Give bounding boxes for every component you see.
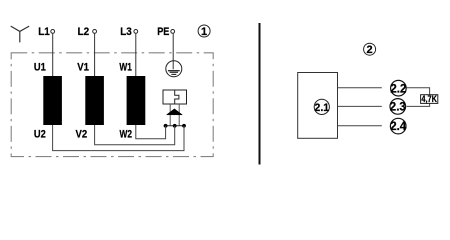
svg-text:U2: U2 (34, 128, 46, 140)
svg-text:2: 2 (367, 44, 373, 56)
svg-text:V2: V2 (76, 128, 88, 140)
svg-text:2.2: 2.2 (390, 83, 406, 95)
dash-dot enclosure frame (motor boundary) (11, 53, 213, 157)
svg-text:4,7K: 4,7K (421, 94, 437, 104)
jumper U2 to bus (53, 125, 184, 151)
svg-text:W2: W2 (120, 128, 133, 140)
wire L1 (52, 33, 54, 76)
callout 2 circle (364, 43, 376, 55)
wire L3 (135, 33, 137, 76)
section separator line (259, 23, 261, 165)
junction dot right (182, 124, 186, 128)
thermal contact box (163, 90, 187, 104)
winding V (black bar) (85, 76, 104, 125)
svg-text:L1: L1 (38, 26, 50, 38)
junction dot middle (173, 124, 177, 128)
svg-text:U1: U1 (34, 62, 46, 74)
junction dot left (164, 124, 168, 128)
svg-text:2.1: 2.1 (315, 102, 330, 114)
svg-text:1: 1 (201, 26, 207, 38)
svg-text:V1: V1 (77, 62, 89, 74)
terminal 2.4 circle (390, 118, 406, 134)
svg-text:2.4: 2.4 (390, 121, 407, 133)
thermal contact leads (169, 104, 171, 126)
star (wye) connection symbol (11, 26, 30, 42)
control unit box (298, 73, 338, 139)
svg-text:W1: W1 (119, 62, 131, 74)
terminal L2 circle (93, 30, 97, 34)
svg-text:L2: L2 (78, 26, 90, 38)
wire PE to earth (172, 33, 174, 69)
svg-text:PE: PE (157, 26, 169, 38)
svg-text:2.3: 2.3 (390, 102, 406, 114)
jumper W2 to bus (136, 125, 166, 139)
wire to 2.3 (338, 105, 382, 107)
earth bars (168, 70, 180, 72)
terminal 2.1 circle (314, 99, 329, 114)
resistor wiring 4,7K to 2.3 (407, 103, 430, 106)
wire L2 (94, 33, 96, 76)
winding W (black bar) (127, 76, 146, 125)
terminal PE circle (171, 30, 175, 34)
protective earth symbol circle (166, 61, 182, 77)
resistor wiring 2.2 to 4,7K (406, 88, 429, 95)
terminal 2.3 circle (390, 99, 406, 115)
callout 1 circle (198, 25, 210, 37)
terminal 2.2 circle (391, 80, 407, 96)
connector triangle (167, 109, 183, 115)
resistor 4,7K box (421, 95, 438, 104)
thermal contact step line (175, 90, 179, 104)
winding U (black bar) (43, 76, 62, 125)
star point bus (164, 125, 186, 127)
terminal L3 circle (134, 30, 138, 34)
terminal L1 circle (51, 30, 55, 34)
wire to 2.2 (338, 87, 382, 89)
svg-text:L3: L3 (120, 26, 132, 38)
jumper V2 to bus (95, 125, 175, 145)
wire to 2.4 (338, 125, 382, 127)
